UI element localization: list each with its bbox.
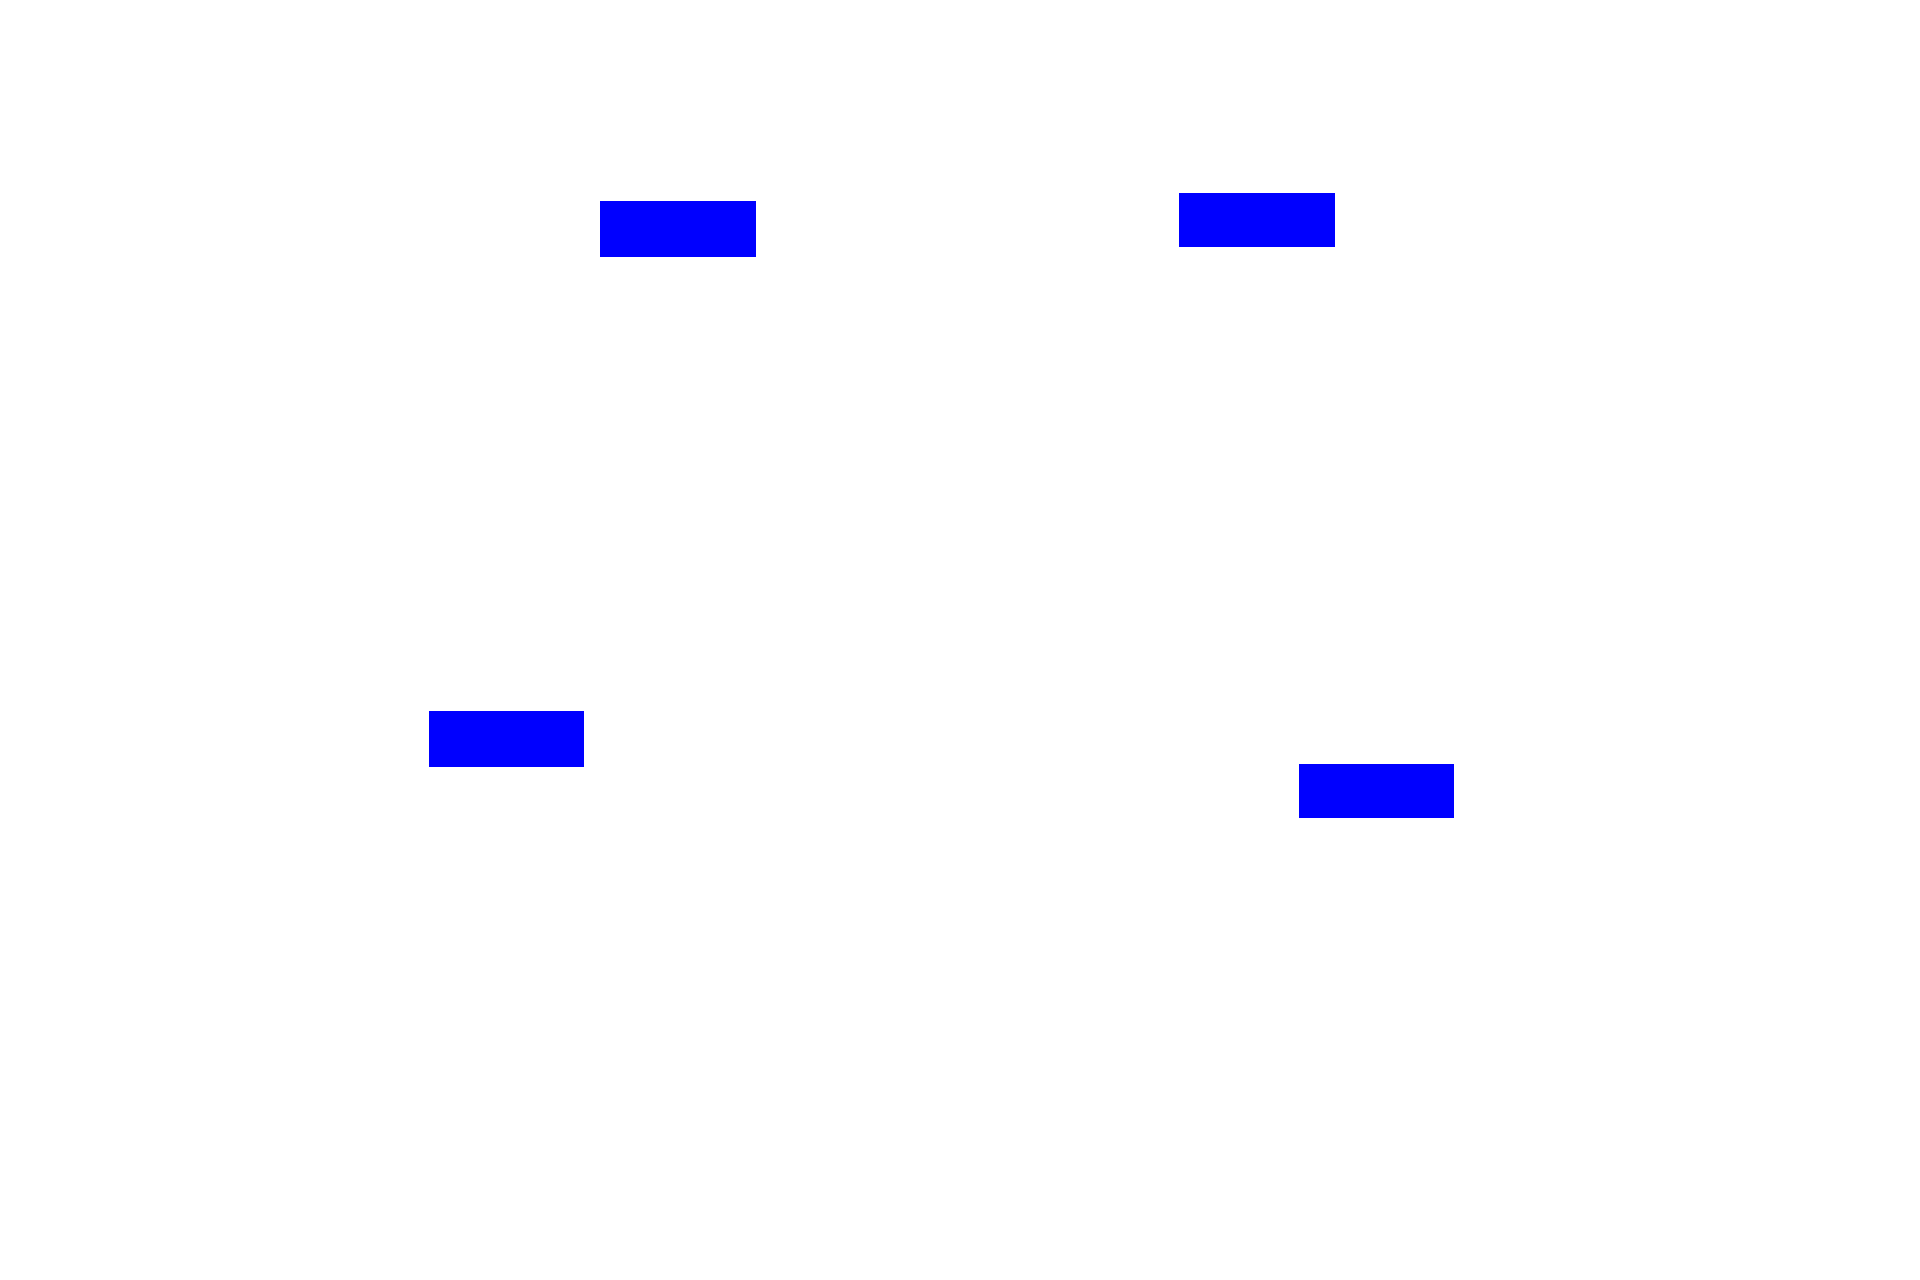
blue rectangle 4 (lower right) xyxy=(1299,764,1454,818)
blue rectangle 3 (lower left) xyxy=(429,711,584,767)
blue rectangle 1 (upper left-center) xyxy=(600,201,756,257)
blue rectangle 2 (upper right-center) xyxy=(1179,193,1335,247)
